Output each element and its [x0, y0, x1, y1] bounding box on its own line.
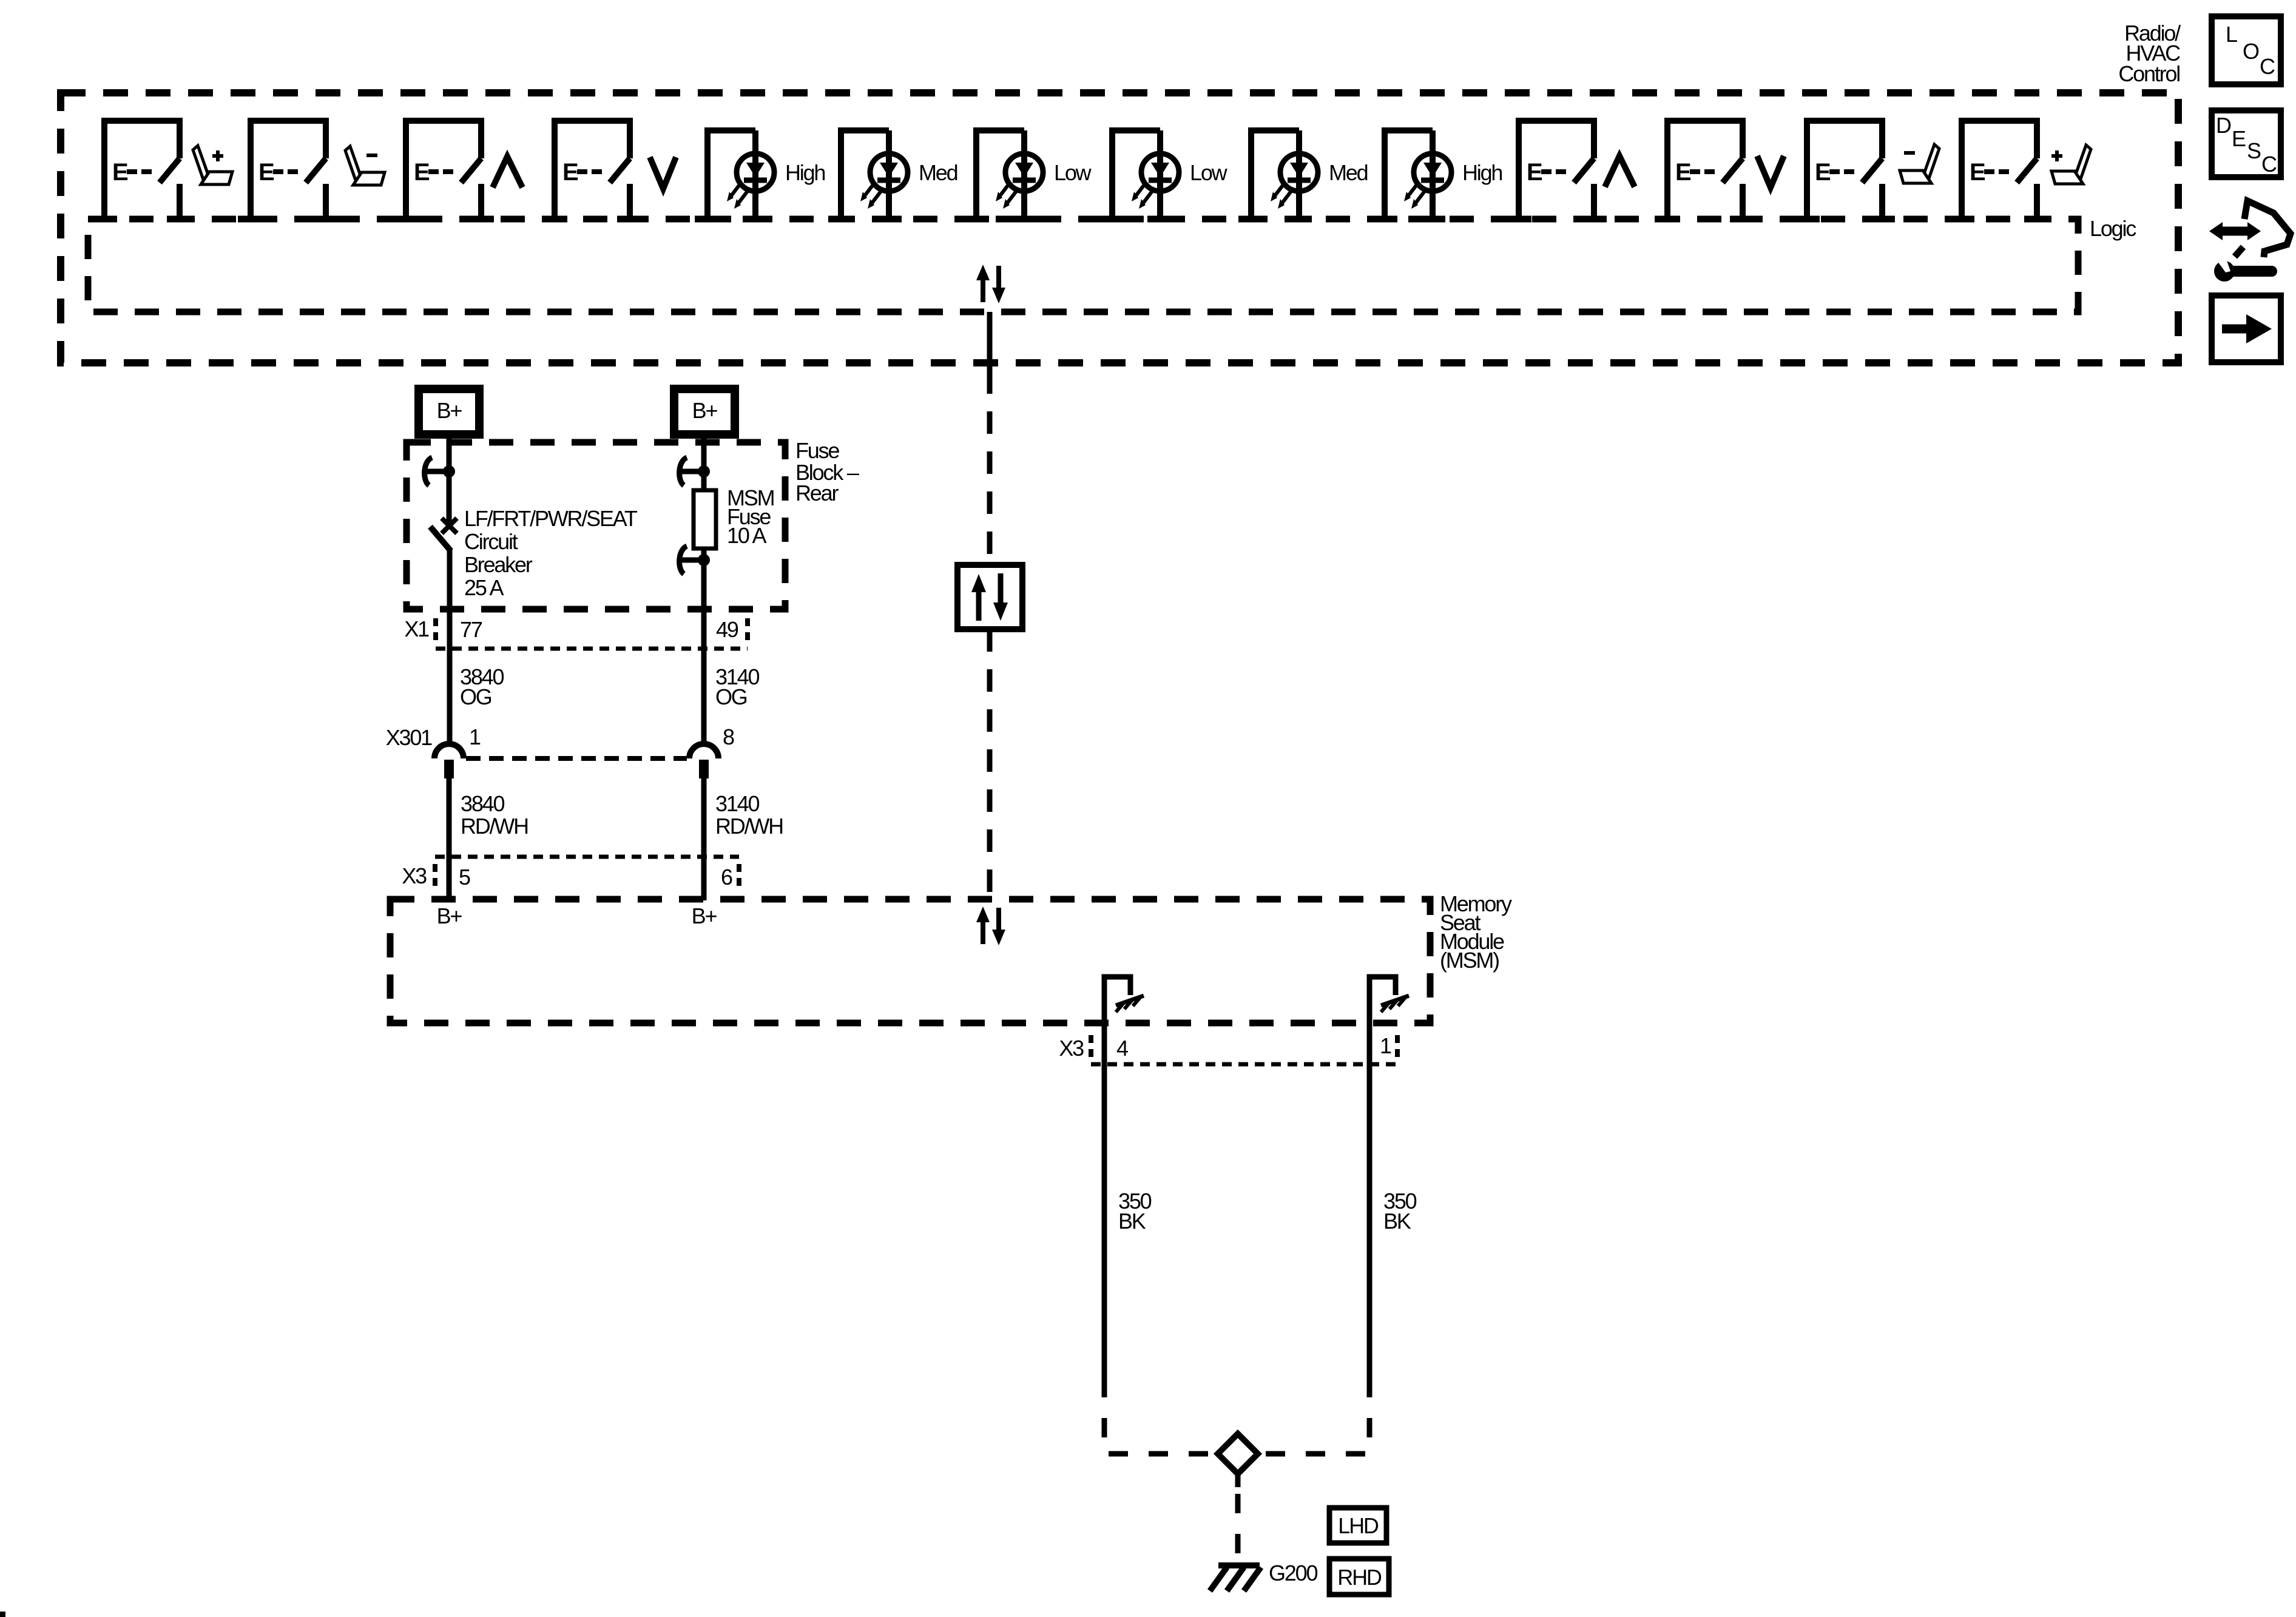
switch S8 seat heat up switch [1949, 121, 2050, 219]
LED indicator Low [1099, 130, 1179, 219]
svg-text:25 A: 25 A [464, 575, 504, 600]
up chevron (S5) [1605, 156, 1635, 187]
svg-text:Low: Low [1054, 160, 1092, 185]
svg-text:B+: B+ [437, 398, 462, 423]
svg-text:RD/WH: RD/WH [461, 814, 528, 839]
svg-text:X3: X3 [1059, 1036, 1084, 1061]
stray page dot [0, 1612, 5, 1617]
seat icon with + (S8, mirrored) [2051, 145, 2091, 184]
svg-text:Control: Control [2118, 61, 2180, 86]
switch S4 temp down switch [542, 121, 643, 219]
LED indicator Low [964, 130, 1043, 219]
B+ terminal 2 [674, 389, 735, 434]
svg-text:4: 4 [1116, 1036, 1128, 1061]
svg-text:B+: B+ [437, 903, 462, 928]
label Memory Seat Module (MSM) [1440, 891, 1512, 973]
connector X301 [434, 744, 718, 778]
LOC icon box [2212, 16, 2281, 84]
DESC icon box [2212, 110, 2281, 177]
connector X3 (MSM top) [435, 857, 739, 890]
seat icon with - (S7, mirrored) [1900, 144, 1939, 183]
B+ terminal 1 [419, 389, 479, 434]
svg-text:LF/FRT/PWR/SEAT: LF/FRT/PWR/SEAT [464, 506, 638, 531]
svg-text:Med: Med [919, 160, 957, 185]
svg-text:X301: X301 [386, 725, 432, 750]
plus sign [212, 150, 223, 161]
wire splice to G200 [1235, 1474, 1241, 1564]
minus sign [366, 154, 377, 157]
plus sign [2051, 150, 2062, 161]
Radio/HVAC Control module box [61, 93, 2178, 363]
serial data wire (dashed lower) [987, 629, 993, 899]
svg-text:RHD: RHD [1337, 1565, 1382, 1590]
svg-text:B+: B+ [692, 903, 717, 928]
svg-text:C: C [2260, 54, 2275, 79]
svg-text:X1: X1 [404, 616, 429, 641]
svg-text:X3: X3 [402, 863, 427, 888]
switch S2 seat heat down switch [238, 121, 339, 219]
svg-text:G200: G200 [1269, 1561, 1317, 1585]
svg-text:RD/WH: RD/WH [715, 814, 783, 839]
seat icon with + (S1) [193, 146, 232, 184]
wire fuse to X301 [701, 560, 707, 744]
wire B+2 to fuse block [701, 439, 707, 474]
LED indicator High [695, 130, 774, 219]
svg-text:(MSM): (MSM) [1440, 948, 1499, 973]
serial data wire (dashed upper) [987, 371, 993, 565]
svg-text:8: 8 [723, 724, 734, 749]
svg-text:E: E [2232, 126, 2246, 151]
wire X301 to X3 (left) [447, 778, 452, 900]
svg-text:Rear: Rear [795, 481, 839, 505]
fuse block clip 1 [424, 457, 455, 485]
ground G200 [1210, 1565, 1261, 1591]
LED indicator High [1372, 130, 1451, 219]
svg-text:S: S [2247, 138, 2261, 163]
Memory Seat Module box [390, 899, 1430, 1023]
Logic block box [88, 219, 2078, 312]
RHD box [1329, 1559, 1389, 1595]
label Fuse Block - Rear [795, 438, 859, 505]
svg-text:77: 77 [460, 617, 482, 642]
seat icon with - (S2) [345, 146, 385, 185]
up chevron (S3) [493, 157, 522, 187]
MSM fuse 10 A [694, 471, 716, 560]
LED indicator Med [1238, 130, 1318, 219]
label Radio/HVAC Control [2118, 21, 2181, 86]
svg-text:BK: BK [1118, 1209, 1146, 1234]
svg-text:LHD: LHD [1338, 1513, 1379, 1538]
svg-text:L: L [2226, 22, 2237, 47]
label wire 3840 OG [460, 664, 504, 709]
Fuse Block - Rear box [407, 442, 785, 609]
label circuit breaker [464, 506, 638, 600]
label MSM fuse [727, 485, 774, 548]
svg-text:5: 5 [459, 865, 470, 890]
svg-text:OG: OG [460, 684, 491, 709]
svg-text:O: O [2243, 39, 2259, 64]
label wire 3140 RD/WH [715, 791, 783, 839]
connector X3 (MSM bottom) [1091, 1035, 1402, 1064]
splice diamond [1218, 1434, 1258, 1474]
fuse block clip 2 [678, 457, 710, 485]
data link arrows (top) [976, 265, 1005, 303]
down chevron (S6) [1757, 156, 1784, 187]
label wire 3140 OG [715, 664, 759, 709]
svg-text:B+: B+ [692, 398, 718, 423]
MSM internal ground (left) [1104, 977, 1144, 1023]
svg-text:Circuit: Circuit [464, 529, 518, 554]
arrow icon box [2212, 295, 2281, 362]
wire 350 BK (left, dashed to splice) [1104, 1378, 1215, 1454]
switch S1 seat heat up switch [92, 121, 192, 219]
MSM internal ground (right) [1369, 977, 1409, 1023]
svg-text:BK: BK [1383, 1209, 1411, 1234]
svg-text:High: High [1462, 160, 1502, 185]
wire breaker to X301 [447, 550, 453, 744]
svg-text:High: High [785, 160, 825, 185]
serial data wire (solid segment) [987, 312, 993, 371]
down chevron (S4) [650, 157, 676, 189]
switch S3 temp up switch [393, 121, 494, 219]
svg-text:C: C [2261, 152, 2277, 177]
svg-text:Med: Med [1329, 160, 1368, 185]
wire 350 BK (right, dashed to splice) [1260, 1378, 1369, 1454]
svg-text:6: 6 [721, 865, 732, 890]
svg-text:3840: 3840 [461, 791, 504, 816]
label wire 350 BK (right) [1383, 1189, 1417, 1234]
LHD box [1329, 1508, 1386, 1543]
svg-text:Low: Low [1190, 160, 1228, 185]
svg-text:Breaker: Breaker [464, 552, 533, 577]
svg-text:OG: OG [715, 684, 747, 709]
data link arrows box [957, 565, 1022, 629]
diagnostic connector icon [2209, 201, 2291, 282]
svg-text:10 A: 10 A [727, 523, 766, 548]
wire B+1 to fuse block [447, 439, 452, 474]
svg-text:Logic: Logic [2090, 216, 2136, 241]
fuse block clip 3 [678, 546, 710, 574]
wire 350 BK (right, solid) [1367, 1023, 1373, 1378]
connector X1 [436, 618, 748, 649]
wire X301 to X3 (right) [701, 778, 707, 900]
LED indicator Med [828, 130, 908, 219]
minus sign [1904, 151, 1915, 155]
svg-text:1: 1 [1380, 1033, 1391, 1058]
svg-text:Fuse: Fuse [795, 438, 839, 463]
switch S6 temp down switch [1655, 121, 1755, 219]
svg-text:1: 1 [469, 724, 481, 749]
switch S7 seat heat down switch [1794, 121, 1895, 219]
circuit breaker LF/FRT/PWR/SEAT 25 A [430, 471, 457, 551]
svg-text:3140: 3140 [715, 791, 759, 816]
label wire 350 BK (left) [1118, 1189, 1152, 1234]
label wire 3840 RD/WH [461, 791, 528, 839]
wire 350 BK (left, solid) [1102, 1023, 1107, 1378]
switch S5 temp up switch [1506, 121, 1607, 219]
data link arrows (inside MSM) [976, 906, 1005, 945]
svg-text:49: 49 [716, 617, 738, 642]
svg-text:D: D [2216, 113, 2231, 138]
